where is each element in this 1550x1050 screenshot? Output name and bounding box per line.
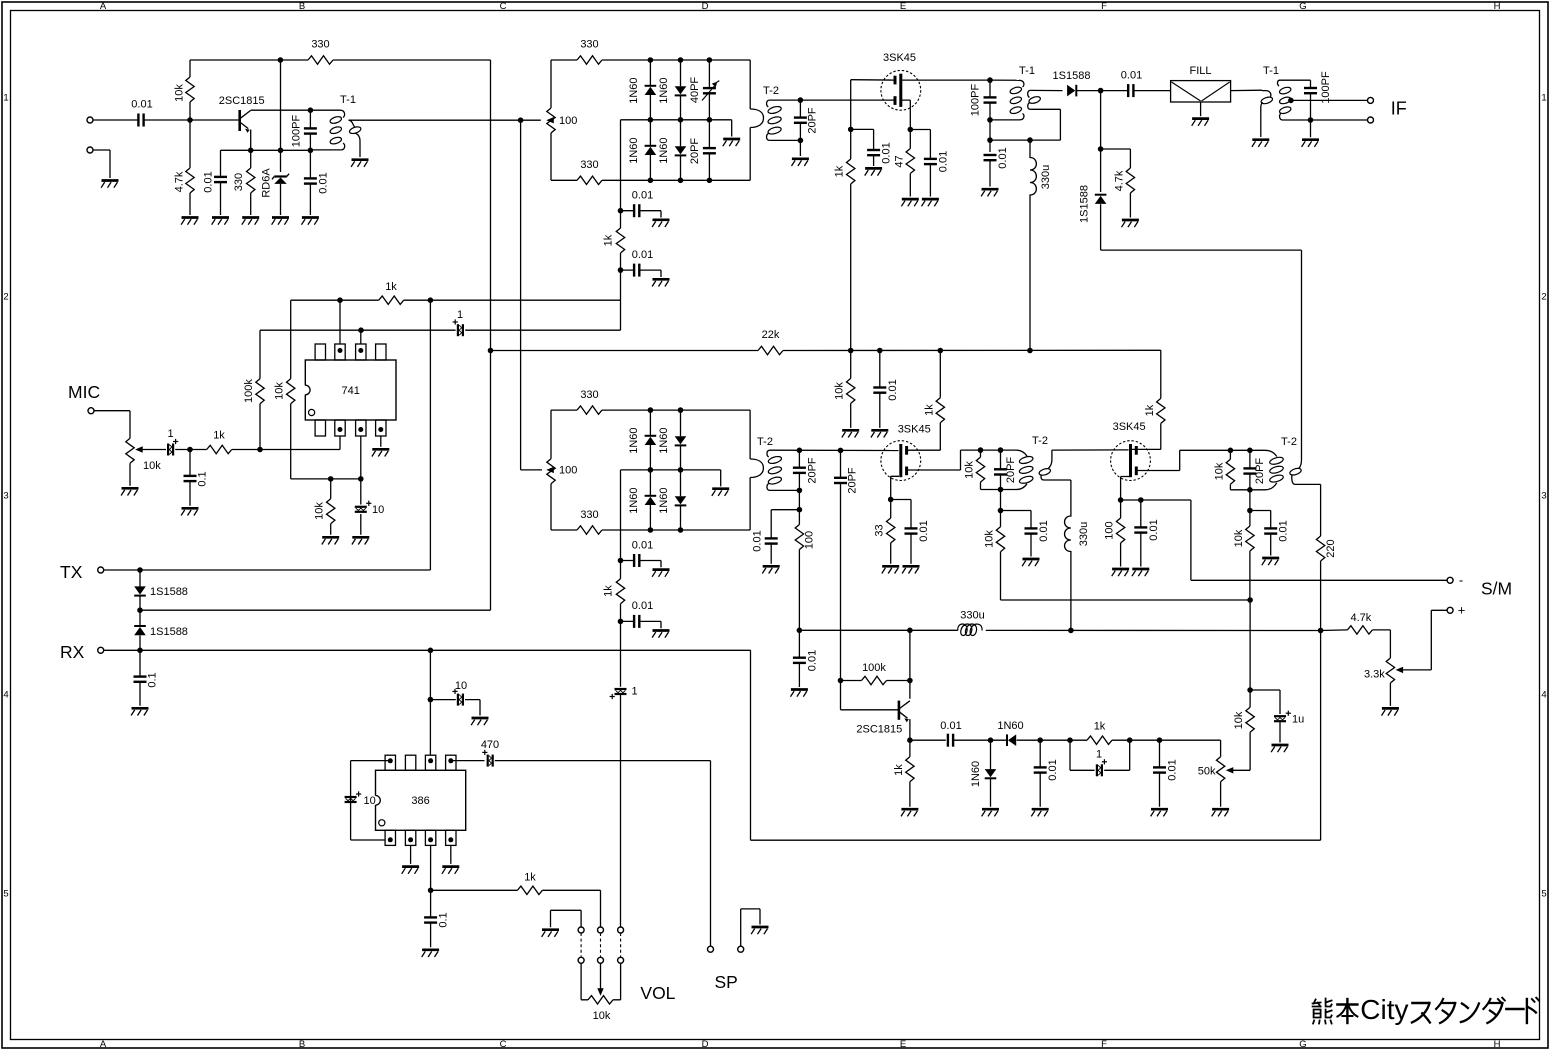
transformer T-1 osc secondary	[349, 120, 356, 127]
node rail j 330u	[1027, 348, 1033, 354]
wire 50k wiper	[1232, 769, 1250, 771]
wire 22k rail	[491, 349, 1161, 351]
resistor 10k tankC	[1226, 459, 1234, 484]
node m2 mid j2	[678, 467, 684, 473]
svg-text:1: 1	[457, 309, 463, 321]
resistor 4.7k AGC load	[1126, 168, 1134, 193]
svg-text:0.01: 0.01	[940, 720, 961, 732]
svg-text:1N60: 1N60	[628, 427, 640, 453]
node tank top junction	[308, 107, 314, 113]
ground under zobel	[422, 948, 439, 951]
svg-text:1k: 1k	[602, 585, 614, 597]
ground under source 0.01	[922, 198, 939, 201]
svg-text:100: 100	[559, 115, 577, 127]
node TX diode j	[137, 567, 143, 573]
svg-text:T-1: T-1	[340, 94, 356, 106]
capacitor 0.1 MIC filter	[184, 475, 197, 477]
resistor 1k emitter2	[906, 757, 914, 782]
svg-text:+: +	[1458, 603, 1466, 618]
resistor 100k feedback	[256, 379, 264, 404]
ground SP bracket	[752, 926, 769, 929]
wire pin5 ground	[380, 437, 382, 447]
resistor 100 fet3	[1116, 518, 1124, 543]
wire secondary bottom to IF-	[1283, 119, 1368, 121]
resistor 10k squelch upper	[1246, 707, 1254, 732]
svg-text:100k: 100k	[862, 662, 886, 674]
svg-text:40PF: 40PF	[689, 77, 701, 104]
svg-text:330: 330	[233, 173, 245, 191]
node det j 0.01	[797, 628, 803, 634]
capacitor 0.01 AF filter1	[1034, 766, 1047, 768]
svg-text:0.01: 0.01	[203, 171, 215, 192]
node bot rail j1	[648, 178, 654, 184]
svg-text:1k: 1k	[893, 764, 905, 776]
capacitor 0.01 chain1 lower	[633, 264, 635, 277]
capacitor 0.01 bleed	[1025, 527, 1038, 529]
ground mixer1 middle row	[723, 138, 740, 141]
resistor 330 mixer1 top	[577, 56, 602, 64]
svg-text:0.01: 0.01	[887, 379, 899, 400]
svg-text:100: 100	[559, 465, 577, 477]
diode 1N60 mixer2 col1 top	[645, 437, 657, 445]
node sw contact B1	[578, 957, 584, 963]
node j 0.1	[187, 447, 193, 453]
svg-text:4.7k: 4.7k	[1113, 170, 1125, 191]
transformer T-2#2 primary	[749, 410, 751, 459]
capacitor 1 AF parallel	[1070, 740, 1130, 770]
ground under FILL	[1192, 117, 1209, 120]
svg-text:100PF: 100PF	[1320, 71, 1332, 104]
node rail j 0.01	[877, 348, 883, 354]
transformer T-2#1 primary	[749, 60, 751, 109]
node 100PF bottom j	[1308, 117, 1314, 123]
svg-text:T-2: T-2	[763, 85, 779, 97]
FET 3SK45 third IF amp	[1111, 441, 1151, 481]
ground under 100PF	[1302, 138, 1319, 141]
resistor 10k pin3	[327, 499, 335, 524]
wire 386 output pin	[430, 845, 432, 890]
svg-text:5: 5	[1541, 888, 1546, 899]
svg-text:0.01: 0.01	[632, 190, 653, 202]
svg-text:City: City	[1360, 994, 1408, 1025]
wire emitter2 row	[910, 739, 946, 741]
node rail j 1k	[938, 348, 944, 354]
diode 1S1588 TX	[134, 586, 146, 594]
wire tankB bottom rail	[981, 489, 1017, 491]
ground under bleed 0.01	[1023, 558, 1040, 561]
title kana ー	[1506, 1008, 1523, 1011]
svg-text:10: 10	[364, 795, 376, 807]
ground under T-1#3 primary	[1252, 138, 1269, 141]
pot 10k MIC gain	[126, 438, 134, 463]
wire diode to junction	[1076, 90, 1128, 92]
svg-text:0.01: 0.01	[918, 520, 930, 541]
svg-text:1S1588: 1S1588	[1079, 185, 1091, 223]
svg-text:470: 470	[481, 739, 499, 751]
resistor 1k 741 supply	[379, 296, 404, 304]
ground under 0.01	[302, 216, 319, 219]
wire tap to IF+	[1291, 99, 1368, 101]
svg-text:1: 1	[3, 92, 8, 103]
amp 386	[376, 770, 466, 830]
diode 1N60 mixer1 col1 top	[645, 87, 657, 95]
svg-text:100PF: 100PF	[970, 84, 982, 117]
wire 386 pin4 gnd	[450, 845, 452, 864]
wire mixer2 top rail	[551, 409, 750, 411]
svg-text:1: 1	[1541, 92, 1546, 103]
wire fet2 source to tank	[908, 450, 1016, 470]
node zener junction	[278, 148, 284, 154]
resistor 1k chain1	[616, 228, 624, 253]
node m2 bot j1	[648, 527, 654, 533]
node chain j2	[618, 267, 624, 273]
wire carrier vertical x=520	[520, 120, 522, 470]
wire cap to base node	[144, 119, 239, 121]
node 100k left j	[838, 678, 844, 684]
title kanji 熊	[1313, 1000, 1321, 1007]
svg-text:1k: 1k	[923, 404, 935, 416]
node y600 right j	[1247, 597, 1253, 603]
wire fet1 drain	[902, 79, 990, 81]
svg-text:1: 1	[1096, 749, 1102, 761]
node AF j1	[988, 737, 994, 743]
node rail j pin7	[337, 297, 343, 303]
svg-text:H: H	[1494, 1039, 1501, 1050]
svg-text:1N60: 1N60	[628, 487, 640, 513]
ground under 3.3k	[1382, 707, 1399, 710]
node top rail j3	[707, 57, 713, 63]
resistor 1k gate bias	[847, 159, 855, 184]
inductor 330u squelch choke	[1065, 480, 1071, 630]
capacitor 0.01 det out	[793, 657, 806, 659]
svg-text:50k: 50k	[1198, 766, 1216, 778]
svg-text:1N60: 1N60	[628, 77, 640, 103]
svg-text:T-2: T-2	[1281, 436, 1297, 448]
title kana ド	[1526, 999, 1528, 1023]
svg-text:10k: 10k	[964, 461, 976, 479]
node chain2 j2	[618, 619, 624, 625]
ground under RX 0.1	[132, 707, 149, 710]
svg-text:0.01: 0.01	[997, 147, 1009, 168]
node rail j 10k	[848, 348, 854, 354]
node tankB j2	[998, 447, 1004, 453]
svg-text:F: F	[1101, 1039, 1107, 1050]
pot 3.3k meter zero	[1386, 658, 1394, 683]
svg-text:G: G	[1299, 1039, 1306, 1050]
diode 1N60 AF shunt	[985, 769, 997, 777]
svg-text:3SK45: 3SK45	[898, 424, 931, 436]
transformer T-1#2 primary	[990, 79, 1019, 81]
resistor 47 source	[906, 149, 914, 174]
capacitor 20PF tank1	[794, 116, 807, 118]
node tankB bot j	[998, 487, 1004, 493]
ground under 330	[242, 216, 259, 219]
svg-text:20PF: 20PF	[806, 457, 818, 484]
wire secondary top to FET2 gate	[770, 449, 899, 451]
node 22k rail start	[488, 348, 494, 354]
wire to ground	[1310, 120, 1312, 137]
svg-text:T-1: T-1	[1019, 65, 1035, 77]
svg-text:5: 5	[3, 888, 8, 899]
wire 386 pin1-8 loop	[351, 761, 391, 840]
node m2 top j2	[678, 407, 684, 413]
svg-text:1N60: 1N60	[658, 487, 670, 513]
node secondary tap	[1288, 98, 1294, 104]
svg-text:10k: 10k	[1233, 529, 1245, 547]
transistor 2SC1815 oscillator	[238, 110, 241, 131]
ground under AGC 4.7k	[1122, 219, 1139, 222]
wire bleed cap branch	[1001, 511, 1032, 529]
diode 1N60 mixer2 col2 bottom	[675, 496, 687, 504]
wire secondary bottom	[770, 140, 801, 156]
node S/M minus terminal	[1447, 577, 1453, 583]
node m2 mid j1	[648, 467, 654, 473]
ground under 33	[882, 565, 899, 568]
node common rail j	[137, 607, 143, 613]
wire tankB bleed	[1000, 490, 1002, 511]
transformer T-2#2 secondary	[767, 450, 770, 457]
wire zener rail	[280, 60, 282, 172]
wire MIC to pot	[94, 411, 130, 439]
svg-text:2SC1815: 2SC1815	[856, 724, 902, 736]
wire secondary bottom loop	[990, 109, 1060, 140]
wire to 4.7k	[1101, 149, 1131, 168]
node input terminal 2	[87, 147, 93, 153]
svg-text:T-2: T-2	[757, 436, 773, 448]
ground 386 pin2	[402, 865, 419, 868]
wire fet3 gate line	[1052, 449, 1129, 451]
resistor 1k FET2 drain	[936, 398, 944, 423]
svg-text:10k: 10k	[1233, 711, 1245, 729]
node sw contact B3	[618, 957, 624, 963]
node fet2 g2 j	[888, 497, 894, 503]
pot 10k volume	[588, 996, 613, 1004]
svg-text:10k: 10k	[593, 1010, 611, 1022]
ground chain2 upper	[653, 568, 670, 571]
node j pin6	[358, 327, 364, 333]
node tankC j2	[1247, 448, 1253, 454]
title kana ン	[1462, 1004, 1468, 1009]
svg-text:0.01: 0.01	[1047, 759, 1059, 780]
svg-text:1N60: 1N60	[658, 137, 670, 163]
transformer T-2#3 right	[1289, 467, 1302, 476]
node bypass j	[987, 137, 993, 143]
svg-text:10k: 10k	[984, 530, 996, 548]
node bot rail j3	[707, 178, 713, 184]
node bot rail j2	[678, 178, 684, 184]
ground under fet3 0.01	[1132, 568, 1149, 571]
capacitor 100PF tank2	[984, 96, 997, 98]
wire fet1 source	[902, 100, 910, 129]
resistor 10k bleed lower	[996, 527, 1004, 552]
svg-text:22k: 22k	[762, 329, 780, 341]
svg-text:0.01: 0.01	[937, 151, 949, 172]
inductor 330u IF choke	[1030, 140, 1036, 350]
node primary top j	[987, 117, 993, 123]
capacitor 1u squelch	[1250, 690, 1280, 714]
ground under AF filter2	[1151, 808, 1168, 811]
resistor 330 emitter	[247, 168, 255, 193]
ground pin5	[372, 448, 389, 451]
svg-text:1N60: 1N60	[658, 427, 670, 453]
svg-text:FILL: FILL	[1189, 65, 1211, 77]
transformer T-1#3 primary	[1262, 91, 1271, 98]
wire 386 supply vert	[429, 650, 431, 755]
wire secondary top out	[1030, 89, 1062, 91]
transistor 2SC1815 squelch	[898, 701, 901, 720]
wire mixer2 middle row	[621, 470, 721, 487]
capacitor 0.01 gate bypass	[867, 149, 880, 151]
capacitor 20PF mixer1	[703, 147, 716, 149]
resistor 10k bleedC lower	[1246, 526, 1254, 551]
diode 1N60 mixer1 col2 bottom	[675, 146, 687, 154]
capacitor 0.01 AF couple	[947, 734, 949, 747]
title kanji 本	[1337, 1003, 1357, 1005]
node AGC j2	[1098, 146, 1104, 152]
capacitor 1 MIC coupling	[167, 444, 169, 456]
ground 386 pin4	[442, 865, 459, 868]
ground under MIC pot	[122, 487, 139, 490]
capacitor 0.01 fet2 g2	[905, 527, 918, 529]
ground under gate 0.01	[865, 167, 882, 170]
svg-text:C: C	[500, 1039, 507, 1050]
resistor 1k zobel	[517, 886, 542, 894]
wire secondary top to tank	[770, 99, 894, 101]
op-amp 741	[305, 360, 396, 420]
ground chain2 lower	[653, 629, 670, 632]
svg-text:1N60: 1N60	[628, 137, 640, 163]
ground supply cap	[472, 717, 489, 720]
capacitor 0.01 osc output bypass	[304, 177, 317, 179]
ground under 0.1	[182, 507, 199, 510]
svg-text:0.01: 0.01	[1148, 519, 1160, 540]
node tankC bot j	[1247, 487, 1253, 493]
wire FILL ground stub	[1200, 102, 1202, 116]
node mid row j1	[648, 117, 654, 123]
node AF j3	[1067, 737, 1073, 743]
wire g2 row	[1121, 499, 1191, 501]
capacitor 0.1 zobel	[424, 916, 437, 918]
svg-text:D: D	[702, 1, 709, 12]
node output j	[428, 888, 434, 894]
capacitor 0.01 input coupling	[137, 114, 139, 127]
diode 1S1588 IF coupling	[1067, 85, 1075, 97]
resistor 1k AF	[1087, 736, 1112, 744]
transformer T-1#2 secondary	[1028, 90, 1031, 97]
capacitor 0.01 bleedC	[1264, 527, 1277, 529]
node squelch j SM	[1318, 628, 1324, 634]
ground under RD6A	[272, 216, 289, 219]
transformer T-2#1 secondary	[767, 100, 770, 107]
svg-text:1k: 1k	[1144, 404, 1156, 416]
svg-text:1S1588: 1S1588	[150, 586, 188, 598]
ground under tank2	[982, 188, 999, 191]
wire fet3 source to tank	[1138, 450, 1265, 470]
svg-text:1: 1	[632, 686, 638, 698]
node sw contact T2	[598, 927, 604, 933]
node m2 bot j2	[678, 527, 684, 533]
svg-text:10k: 10k	[1213, 462, 1225, 480]
capacitor 0.01 FILL coupling	[1127, 84, 1129, 97]
node chain2 j1	[618, 558, 624, 564]
capacitor 40PF variable	[703, 87, 716, 89]
svg-text:1k: 1k	[385, 281, 397, 293]
ground under 100	[1112, 568, 1129, 571]
wire mixer1 bottom rail	[551, 179, 750, 181]
capacitor 20PF tankB	[994, 468, 1007, 470]
node RX-386 j	[428, 648, 434, 654]
wire pin7 lead	[339, 300, 341, 344]
wire input to cap	[93, 119, 138, 121]
svg-text:3: 3	[1541, 490, 1546, 501]
svg-text:10: 10	[455, 680, 467, 692]
svg-text:1N60: 1N60	[658, 77, 670, 103]
ground under T-1 secondary	[352, 158, 369, 161]
wire tankC bleed	[1249, 490, 1251, 511]
svg-text:386: 386	[411, 795, 429, 807]
wire 330 to TX/RX power vertical	[333, 59, 491, 61]
wire squelch return box	[751, 650, 1321, 840]
node j cap10	[358, 476, 364, 482]
svg-text:1k: 1k	[602, 234, 614, 246]
transformer T-2#3 left	[1265, 450, 1277, 456]
wire sw wiper	[600, 963, 602, 989]
svg-text:330: 330	[580, 39, 598, 51]
diode 1N60 mixer2 col2 top	[675, 436, 687, 444]
wire RX line	[104, 649, 751, 651]
wire AF row	[1040, 739, 1220, 741]
node mid row j2	[678, 117, 684, 123]
node 100k right j	[907, 678, 913, 684]
resistor 10k tankB	[976, 457, 984, 482]
capacitor 1 output coupling	[457, 324, 459, 336]
ground under 47	[902, 198, 919, 201]
node carrier tap junction	[518, 117, 524, 123]
svg-text:330u: 330u	[960, 610, 984, 622]
svg-text:B: B	[299, 1039, 305, 1050]
capacitor 0.01 det bypass	[765, 537, 778, 539]
resistor 330 oscillator feed	[308, 56, 333, 64]
ground under rail 10k	[842, 429, 859, 432]
svg-text:A: A	[100, 1039, 107, 1050]
wire collector riser	[909, 630, 911, 699]
node squelch j choke	[1068, 628, 1074, 634]
node rail j TX	[428, 297, 434, 303]
wire 386 out coupling	[451, 760, 485, 762]
diode 1N60 AF series	[1008, 734, 1016, 746]
svg-text:1N60: 1N60	[997, 720, 1023, 732]
node SP terminal L	[708, 946, 714, 952]
ground under det out	[791, 688, 808, 691]
svg-text:G: G	[1299, 1, 1306, 12]
node emitter junction	[248, 148, 254, 154]
node tank3 top	[797, 448, 803, 454]
capacitor 0.01 chain2 lower	[633, 615, 635, 628]
wire bleedC cap branch	[1250, 511, 1271, 529]
wire 1k to pin2	[232, 449, 260, 451]
wire mixer1 top rail	[551, 59, 750, 61]
node tankC j1	[1228, 448, 1234, 454]
inductor 330u AF choke	[958, 624, 982, 635]
transformer T-2#2b right	[1038, 467, 1051, 476]
capacitor 20PF tankC	[1243, 467, 1256, 469]
svg-text:1S1588: 1S1588	[1053, 70, 1091, 82]
ground under 1N60	[982, 808, 999, 811]
wire fet2 gate2	[891, 476, 899, 499]
wire source cap branch	[910, 130, 930, 159]
svg-text:330: 330	[580, 389, 598, 401]
wire secondary bottom	[770, 490, 799, 509]
